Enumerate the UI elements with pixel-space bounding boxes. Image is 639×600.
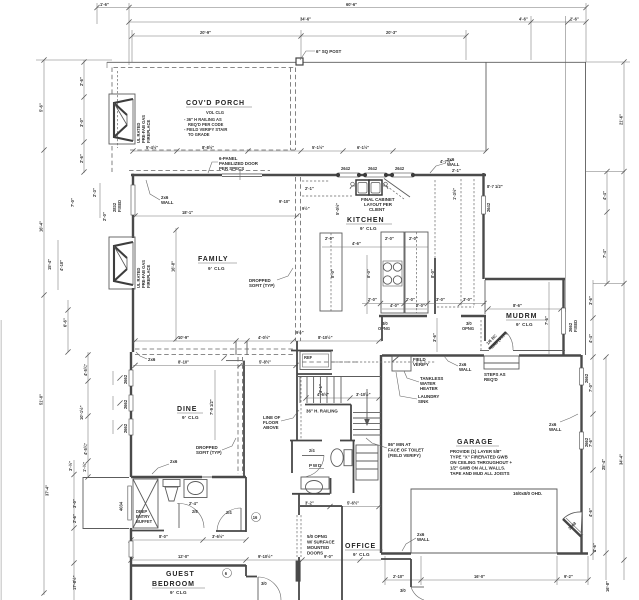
svg-text:9½": 9½"	[302, 206, 310, 211]
svg-text:2'-6": 2'-6"	[72, 514, 77, 523]
svg-text:10'-9": 10'-9"	[178, 335, 189, 340]
kitchen east wall x=435	[434, 258, 436, 314]
svg-text:25'-4": 25'-4"	[601, 459, 606, 470]
svg-text:8'-10": 8'-10"	[178, 360, 189, 365]
door: 6-panel glazed door	[222, 173, 262, 175]
svg-text:1'-½": 1'-½"	[82, 462, 87, 472]
6" sq post	[296, 58, 303, 65]
svg-text:OFFICE: OFFICE	[345, 543, 376, 550]
circled number 16	[252, 513, 261, 522]
svg-text:8'-0": 8'-0"	[159, 534, 168, 539]
svg-text:8'-6": 8'-6"	[513, 303, 522, 308]
svg-text:BEDROOM: BEDROOM	[152, 581, 195, 588]
wall under ref y=374	[297, 373, 332, 375]
svg-text:WALL: WALL	[549, 427, 562, 432]
svg-text:3'-0": 3'-0"	[72, 499, 77, 508]
garage door header	[411, 489, 557, 553]
right dim x=624 labels	[621, 59, 626, 64]
svg-text:4'-10": 4'-10"	[59, 260, 64, 271]
bath door arc	[177, 503, 179, 504]
wall: garage north y=355.5	[382, 354, 484, 356]
svg-text:HEATER: HEATER	[420, 386, 439, 391]
stair dim line y=398	[305, 397, 381, 399]
stairs lower flight treads	[353, 413, 381, 435]
toilet guest bath	[163, 480, 180, 502]
svg-text:3'-6½": 3'-6½"	[212, 534, 224, 539]
wall: hall east x=299 lower	[298, 493, 300, 515]
dashed line of floor above x=301	[300, 376, 302, 440]
svg-text:PWD: PWD	[309, 463, 322, 468]
svg-text:2642: 2642	[341, 166, 351, 171]
svg-text:2642: 2642	[486, 202, 491, 212]
svg-text:3'-0": 3'-0"	[463, 297, 472, 302]
svg-text:20'-9": 20'-9"	[200, 30, 211, 35]
svg-text:2'-0": 2'-0"	[409, 236, 418, 241]
svg-text:2'-3": 2'-3"	[92, 188, 97, 197]
svg-text:5'-8½": 5'-8½"	[259, 360, 271, 365]
wall: bath north y=477	[131, 476, 202, 478]
window 2642 east wall	[482, 196, 486, 214]
garage door sill	[411, 552, 557, 554]
svg-text:W/ SURFACE: W/ SURFACE	[307, 540, 335, 545]
pwd door arc	[302, 454, 324, 456]
mudroom door to garage (diagonal leaf)	[489, 332, 506, 349]
wall: guest north y=565	[131, 564, 246, 566]
wall: closet north y=506	[300, 505, 342, 507]
kitchen island center w/ cooktop	[381, 232, 404, 313]
svg-text:DOORS: DOORS	[307, 551, 323, 556]
dim extension x=586	[585, 3, 587, 62]
railing wall	[305, 404, 351, 406]
svg-text:21'-6": 21'-6"	[619, 114, 624, 125]
svg-text:FIREPLACE: FIREPLACE	[146, 265, 151, 288]
bottom dim bath y=540	[131, 539, 246, 541]
wall: mudroom east lower	[562, 334, 564, 356]
window dine 2662 b	[129, 395, 133, 411]
dashed soffit horizontals	[135, 348, 293, 350]
wall: kitchen east x=483 continues	[482, 214, 484, 279]
svg-text:4034: 4034	[119, 501, 124, 511]
kitchen island right column	[405, 232, 428, 313]
svg-text:2'-1": 2'-1"	[305, 186, 314, 191]
svg-text:5'-6½": 5'-6½"	[347, 501, 359, 506]
wall: office/garage strip y=559	[381, 558, 411, 560]
svg-text:7'-6": 7'-6"	[544, 316, 549, 325]
svg-text:9' CLG: 9' CLG	[208, 266, 225, 271]
wall: family west lower	[132, 288, 134, 352]
door jambs at hall opening	[235, 341, 237, 355]
svg-text:8'-7 1/2": 8'-7 1/2"	[487, 184, 503, 189]
dine north dim line y=365.4	[133, 364, 298, 366]
vanity guest bath	[184, 480, 207, 498]
dim extension right x=624	[623, 62, 625, 580]
svg-text:8'-0": 8'-0"	[330, 269, 335, 278]
stair direction arrow	[366, 389, 368, 420]
guest wing hall small walls near pwd	[245, 477, 247, 532]
page edge line left	[0, 320, 2, 600]
kitchen interior vertical dim x=367	[366, 255, 368, 314]
svg-text:18'-1": 18'-1"	[182, 210, 193, 215]
wall: family north y=175	[131, 174, 222, 176]
svg-text:ON CEILING THROUGHOUT +: ON CEILING THROUGHOUT +	[450, 460, 513, 465]
svg-text:CLIENT: CLIENT	[369, 207, 385, 212]
svg-text:2'-0": 2'-0"	[385, 236, 394, 241]
wall: family west continues	[132, 215, 134, 238]
svg-text:5'-4½": 5'-4½"	[146, 145, 158, 150]
dashed overhang above family north wall	[129, 170, 270, 172]
dashed line right of ref y=362	[332, 361, 435, 363]
circled number 6	[223, 569, 232, 578]
steps into garage	[484, 356, 519, 363]
wall: stair hall south y=440.5	[290, 440, 322, 442]
svg-text:51'-0": 51'-0"	[39, 394, 44, 405]
kitchen island left	[320, 233, 342, 311]
right edge vertical x=585.5	[585, 62, 587, 355]
office-garage door bottom	[411, 586, 424, 588]
wall: garage east x=581	[580, 355, 582, 368]
svg-text:5/0 OPNG: 5/0 OPNG	[307, 534, 328, 539]
svg-text:3'-0": 3'-0"	[436, 297, 445, 302]
svg-text:2/8: 2/8	[192, 509, 198, 514]
svg-text:4'-5¾": 4'-5¾"	[83, 364, 88, 376]
svg-text:1/2" GWB ON ALL WALLS.: 1/2" GWB ON ALL WALLS.	[450, 466, 505, 471]
svg-text:4'-4": 4'-4"	[588, 334, 593, 343]
svg-text:KITCHEN: KITCHEN	[347, 217, 384, 224]
svg-text:WALL: WALL	[161, 200, 174, 205]
svg-text:34'-4": 34'-4"	[619, 454, 624, 465]
svg-text:FAMILY: FAMILY	[198, 256, 228, 263]
svg-text:REQ'D: REQ'D	[484, 377, 498, 382]
right dim line y=283.5	[593, 283, 625, 285]
stairs upper flight treads	[300, 377, 341, 404]
window dine 2662 c	[129, 419, 133, 435]
dashed soffit family east	[295, 177, 297, 341]
wall: mudroom north y=279	[485, 278, 565, 280]
svg-text:2'-6": 2'-6"	[79, 77, 84, 86]
svg-text:3'-1": 3'-1"	[318, 384, 323, 393]
left dim line x=44	[43, 60, 45, 595]
svg-text:7'-0": 7'-0"	[588, 383, 593, 392]
wall: office west x=342	[341, 506, 343, 600]
top dim line 3 y=36	[132, 35, 466, 37]
wall: family north continues	[262, 174, 338, 176]
svg-text:PER SPECS: PER SPECS	[219, 166, 244, 171]
fireplace unit family	[114, 242, 133, 285]
svg-text:9'-10": 9'-10"	[279, 199, 290, 204]
porch bottom dashed edge	[130, 149, 296, 151]
svg-text:16/0x8/0 OHD.: 16/0x8/0 OHD.	[513, 491, 542, 496]
wall: mudroom west x=485 partial	[484, 316, 486, 341]
svg-text:86" MIN AT: 86" MIN AT	[388, 442, 411, 447]
svg-text:FIREPLACE: FIREPLACE	[146, 120, 151, 143]
svg-text:2'-0": 2'-0"	[416, 303, 425, 308]
wall: hall north y=316.5	[379, 315, 427, 317]
svg-text:SINK: SINK	[418, 399, 429, 404]
svg-text:8'-8½": 8'-8½"	[202, 145, 214, 150]
tankless water heater box	[392, 356, 411, 371]
svg-text:REF: REF	[304, 355, 313, 360]
tick x	[221, 355, 226, 360]
svg-text:PROVIDE (1) LAYER 5/8": PROVIDE (1) LAYER 5/8"	[450, 449, 501, 454]
kitchen east cabinets dashed	[460, 179, 462, 307]
svg-text:OPNG: OPNG	[378, 326, 390, 331]
svg-text:5'-0½": 5'-0½"	[335, 203, 340, 215]
svg-text:7'-4": 7'-4"	[602, 249, 607, 258]
svg-text:60'-6": 60'-6"	[346, 2, 357, 7]
family interior dim x=176	[175, 228, 177, 341]
dine interior vertical dim x=215	[214, 370, 216, 440]
svg-text:GUEST: GUEST	[166, 571, 195, 578]
svg-text:3'-10½": 3'-10½"	[356, 392, 371, 397]
svg-text:9'-0": 9'-0"	[324, 554, 333, 559]
svg-text:2'-10": 2'-10"	[393, 574, 404, 579]
window 2832 fixed family west	[131, 185, 135, 215]
svg-text:OPNG: OPNG	[462, 326, 474, 331]
svg-text:COV'D PORCH: COV'D PORCH	[186, 100, 245, 107]
dim extension x=301	[300, 30, 302, 60]
svg-text:1'-3½": 1'-3½"	[452, 188, 457, 200]
svg-text:9' CLG: 9' CLG	[182, 415, 199, 420]
svg-text:2/4: 2/4	[309, 448, 315, 453]
svg-text:2'-6": 2'-6"	[592, 543, 597, 552]
svg-text:12'-0": 12'-0"	[178, 554, 189, 559]
svg-text:4'-6": 4'-6"	[519, 17, 528, 22]
svg-text:FIXED: FIXED	[117, 200, 122, 212]
svg-text:2'-0": 2'-0"	[406, 297, 415, 302]
svg-text:3'-½": 3'-½"	[68, 461, 73, 471]
short wall segment y=360.6	[226, 360, 242, 362]
kitchen aisle dims y=247	[322, 246, 428, 248]
svg-text:2642: 2642	[368, 166, 378, 171]
svg-text:3'-0": 3'-0"	[79, 118, 84, 127]
svg-text:2662: 2662	[584, 437, 589, 447]
porch right dashed edge	[295, 68, 297, 151]
left dim lower x=74	[73, 460, 75, 600]
svg-text:DINE: DINE	[177, 406, 197, 413]
svg-text:4'-6": 4'-6"	[588, 508, 593, 517]
svg-text:4'-7½": 4'-7½"	[440, 159, 452, 164]
svg-text:2x6: 2x6	[148, 357, 156, 362]
wall: kitchen north with windows	[414, 174, 486, 176]
svg-text:2'-4": 2'-4"	[189, 501, 198, 506]
svg-text:2'-0": 2'-0"	[368, 297, 377, 302]
top dim line 1 y=7	[97, 7, 586, 9]
svg-text:6'-1½": 6'-1½"	[357, 145, 369, 150]
svg-text:5'-6": 5'-6"	[39, 103, 44, 112]
window garage east 2	[580, 432, 584, 449]
right dim col x=607	[606, 172, 608, 284]
laundry small dims	[382, 308, 427, 310]
svg-text:20'-3": 20'-3"	[386, 30, 397, 35]
svg-text:9½": 9½"	[296, 330, 304, 335]
svg-text:TYPE "X" FIRERATED GWB: TYPE "X" FIRERATED GWB	[450, 455, 508, 460]
svg-text:16'-4": 16'-4"	[39, 221, 44, 232]
svg-text:VERIFY: VERIFY	[413, 362, 429, 367]
svg-text:1'-6": 1'-6"	[100, 2, 109, 7]
wall: pwd east x=353.5	[353, 440, 355, 493]
svg-text:2662: 2662	[584, 373, 589, 383]
fireplace bumpout family	[109, 237, 135, 289]
svg-text:9'-10½": 9'-10½"	[258, 554, 273, 559]
svg-text:2'-0": 2'-0"	[325, 236, 334, 241]
svg-text:WALL: WALL	[459, 367, 472, 372]
svg-text:3'-2": 3'-2"	[305, 501, 314, 506]
entry stoop rect	[83, 478, 129, 529]
svg-text:FIXED: FIXED	[573, 320, 578, 332]
window center ticks dine	[117, 375, 122, 380]
svg-text:9' CLG: 9' CLG	[360, 226, 377, 231]
right dim x=593	[592, 280, 594, 560]
svg-text:6" SQ POST: 6" SQ POST	[316, 49, 342, 54]
svg-text:16'-0": 16'-0"	[474, 574, 485, 579]
sink double basin	[356, 180, 382, 195]
svg-text:4'-0½": 4'-0½"	[258, 335, 270, 340]
porch inner dashed line	[117, 71, 119, 148]
stair top line y=376.5	[297, 376, 381, 378]
left dim line x=84 upper	[83, 60, 85, 173]
window jamb posts	[336, 173, 415, 177]
svg-text:3/0: 3/0	[400, 588, 406, 593]
svg-text:34'-6": 34'-6"	[300, 17, 311, 22]
porch top dashed edge	[114, 67, 296, 69]
svg-text:16: 16	[253, 515, 258, 520]
svg-text:37'-4": 37'-4"	[45, 485, 50, 496]
svg-text:6'-6": 6'-6"	[63, 318, 68, 327]
patio top edge y=62	[107, 61, 586, 63]
svg-text:16'-8": 16'-8"	[171, 261, 176, 272]
dim extension x=466	[465, 30, 467, 60]
entry buffet cabinet	[133, 479, 158, 528]
svg-text:FACE OF TOILET: FACE OF TOILET	[388, 448, 424, 453]
left dim dine x=88	[87, 352, 89, 477]
wall: hall west x=382	[381, 317, 383, 342]
svg-text:9'-2": 9'-2"	[564, 574, 573, 579]
porch left dashed edge	[111, 68, 113, 96]
svg-text:4'-0": 4'-0"	[390, 303, 399, 308]
wall: dine west x=131 upper	[130, 352, 132, 370]
porch fireplace bumpout	[109, 94, 135, 144]
svg-text:ABOVE: ABOVE	[263, 425, 279, 430]
svg-text:BUFFET: BUFFET	[136, 519, 153, 524]
svg-text:WALL: WALL	[417, 537, 430, 542]
hall door arc 2	[217, 508, 241, 531]
dim extension x=132	[131, 30, 133, 62]
svg-text:9' CLG: 9' CLG	[353, 552, 370, 557]
svg-text:9' CLG: 9' CLG	[516, 322, 533, 327]
toilet pwd	[331, 449, 352, 467]
svg-text:2642: 2642	[395, 166, 405, 171]
wall: mudroom east x=563.5	[562, 279, 564, 308]
bottom dim garage y=580	[385, 579, 588, 581]
guest bedroom door	[245, 565, 247, 576]
svg-text:16'-8": 16'-8"	[605, 581, 610, 592]
svg-text:3'-6": 3'-6"	[432, 333, 437, 342]
mudroom right vertical dim	[548, 282, 550, 354]
corner cabinet diagonal	[384, 179, 410, 198]
svg-text:2x6: 2x6	[170, 459, 178, 464]
svg-text:SOFIT (TYP): SOFIT (TYP)	[249, 283, 275, 288]
kitchen counters dashed top	[302, 195, 352, 197]
svg-text:4'-6": 4'-6"	[352, 241, 361, 246]
svg-text:(FIELD VERIFY): (FIELD VERIFY)	[388, 453, 421, 458]
svg-text:MUDRM: MUDRM	[506, 313, 537, 320]
bottom dim guest y=560	[131, 559, 381, 561]
cooktop burners	[383, 261, 402, 286]
window mudroom east 2662 fixed	[562, 308, 566, 334]
svg-text:10'-1½": 10'-1½"	[79, 405, 84, 420]
garage service door fan	[563, 512, 582, 537]
svg-text:5'-1½": 5'-1½"	[312, 145, 324, 150]
svg-text:7'-0": 7'-0"	[70, 198, 75, 207]
window 4034 guest bath bay	[128, 486, 132, 520]
svg-text:8'-10½": 8'-10½"	[318, 335, 333, 340]
svg-text:9' CLG: 9' CLG	[170, 590, 187, 595]
kitchen bottom dims y=303	[362, 303, 486, 305]
mudroom width dim	[487, 308, 562, 310]
dim extension x=531	[530, 16, 532, 60]
left dim dine x=68	[67, 300, 69, 352]
porch dim line y=151	[133, 150, 486, 152]
wall: garage west x=381	[380, 355, 382, 553]
dim extension x=97	[96, 3, 98, 24]
svg-text:3/0: 3/0	[261, 581, 267, 586]
wall: guest west x=131 lower	[130, 528, 132, 541]
window dine 2662 a	[129, 370, 133, 386]
svg-text:3'-6": 3'-6"	[588, 296, 593, 305]
svg-text:7'-9 1/2": 7'-9 1/2"	[209, 399, 214, 415]
wall: kitchen-stairs west x=297	[296, 341, 298, 440]
svg-text:36" H. RAILING: 36" H. RAILING	[306, 409, 338, 414]
svg-text:2662: 2662	[123, 399, 128, 409]
wall: family west x=133	[132, 174, 134, 185]
svg-text:VOL CLG: VOL CLG	[206, 110, 224, 115]
svg-text:4'-4": 4'-4"	[602, 191, 607, 200]
svg-text:TAPE AND MUD ALL JOISTS: TAPE AND MUD ALL JOISTS	[450, 471, 510, 476]
dim extension x=565.5	[565, 16, 567, 312]
dim line y=341	[133, 340, 382, 342]
svg-text:4'-5¾": 4'-5¾"	[83, 443, 88, 455]
family width dim y=216	[135, 215, 299, 217]
wall: garage south	[381, 552, 411, 554]
under stair closet	[356, 445, 378, 480]
REF box	[300, 352, 331, 370]
svg-text:2'-6": 2'-6"	[570, 17, 579, 22]
wall: pwd west x=292	[291, 440, 293, 473]
window garage east 1	[580, 368, 584, 385]
porch fireplace unit	[114, 99, 133, 141]
dashed soffit dine east	[237, 357, 239, 474]
wall: bath south y=530 partial	[131, 530, 164, 532]
patio divider line x=486	[485, 62, 487, 151]
pedestal sink pwd	[301, 477, 329, 489]
wall: pwd south y=491	[292, 493, 330, 495]
window 2642 x3 kitchen north	[338, 173, 359, 177]
kitchen south wall by REF y=350.5	[291, 350, 333, 352]
wall: foyer west x=244	[243, 361, 245, 477]
svg-text:2662: 2662	[123, 423, 128, 433]
svg-text:17'-8½": 17'-8½"	[72, 575, 77, 590]
vertical dim x=437	[436, 318, 438, 352]
closet/office divider dim y=506	[300, 506, 381, 508]
svg-text:15'-4": 15'-4"	[47, 259, 52, 270]
svg-text:2'-1": 2'-1"	[452, 168, 461, 173]
wall: kitchen east x=483	[482, 173, 484, 196]
svg-text:2'-0": 2'-0"	[102, 212, 107, 221]
svg-text:GARAGE: GARAGE	[457, 439, 493, 446]
svg-text:SOFIT (TYP): SOFIT (TYP)	[196, 450, 222, 455]
right dim line y=171.5	[586, 171, 625, 173]
svg-text:TO GRADE: TO GRADE	[188, 132, 210, 137]
